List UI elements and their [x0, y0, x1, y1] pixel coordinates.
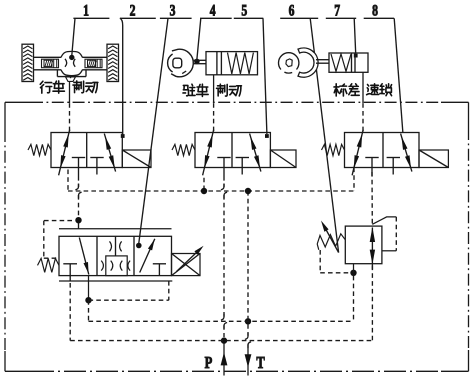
label 驻车制动 (parking brake) [183, 84, 241, 96]
wire main valve work port [88, 276, 90, 301]
parking brake drum [168, 49, 194, 77]
wheel brake chambers [42, 59, 103, 67]
wire main valve T drop [69, 283, 71, 341]
node relief drain junction [350, 270, 356, 276]
enclosure boundary left [4, 102, 6, 371]
svg-text:1: 1 [83, 3, 89, 20]
wire pilot bracket to spring side [44, 221, 75, 259]
node main valve outlet junction [85, 297, 91, 303]
wire V3 return drop [353, 168, 355, 192]
leader line 4 [194, 18, 201, 64]
leader line 1 [69, 18, 75, 60]
piston rod (parking) [194, 60, 206, 63]
svg-text:8: 8 [372, 3, 378, 20]
wire V3 to relief valve [371, 172, 373, 224]
wire V1 return drop [67, 170, 69, 192]
node T rail junction [245, 318, 251, 324]
axle housing with differential [34, 51, 108, 75]
wheel tires (service brake axle) [22, 44, 119, 81]
svg-text:2: 2 [130, 3, 136, 20]
port T arrow [245, 354, 252, 367]
solenoid valve V2 (parking brake 3/2 valve) [172, 130, 296, 176]
differential gear marks [65, 59, 75, 67]
node T top junction [245, 188, 251, 194]
callout numbers 1-8 [83, 3, 378, 20]
enclosure boundary bottom [5, 370, 469, 372]
wire relief spring drain [320, 250, 350, 273]
wire V1 pilot to main valve [78, 223, 80, 229]
label T [256, 354, 265, 372]
wire pressure line P [221, 176, 227, 376]
spring brake cylinder (parking) [206, 52, 258, 75]
label 桥差速锁 (diff lock) [334, 84, 392, 96]
wire relief outlet drop [371, 266, 373, 341]
leader line 5 [263, 18, 269, 138]
port P arrow [221, 352, 228, 365]
wire V2 return drop [203, 178, 205, 191]
wire parking-brake line [213, 75, 215, 133]
svg-text:5: 5 [241, 3, 247, 20]
wire V1 pilot drop [75, 176, 81, 217]
wire tank rail [68, 190, 354, 192]
svg-text:7: 7 [334, 3, 340, 20]
relief valve (pressure control) [317, 217, 396, 270]
leader line 3 [136, 18, 168, 248]
wire under-valve return [89, 281, 169, 300]
svg-text:4: 4 [210, 3, 216, 20]
adjustment arrow (leader 6 end) [321, 221, 339, 253]
main brake valve (pilot operated proportional valve) [38, 229, 204, 281]
svg-text:3: 3 [170, 3, 176, 20]
wire rail A [89, 300, 354, 321]
node V2 return junction [201, 188, 207, 194]
diff-lock cylinder [329, 53, 368, 72]
solenoid valve V1 (service brake 3/2 valve) [28, 130, 151, 176]
node V1 pilot junction [75, 217, 81, 223]
wire relief drain drop [353, 276, 355, 322]
wire tank line T [245, 191, 251, 376]
diff-lock gear wheel [278, 53, 298, 73]
shift fork [298, 48, 318, 77]
leader line 2 [120, 18, 125, 138]
piston rod (diff lock) [316, 60, 329, 64]
node P junction [221, 337, 227, 343]
leader line 6 [310, 18, 338, 252]
brake actuator bracket [57, 70, 86, 82]
svg-text:6: 6 [289, 3, 295, 20]
label P [205, 354, 213, 372]
leader line 7 [354, 18, 358, 57]
leader line 8 [394, 18, 403, 133]
wire diff-lock line [362, 72, 364, 132]
wire relief valve outlet stub [353, 264, 355, 273]
wire rail B [70, 340, 372, 342]
svg-text:P: P [205, 354, 213, 372]
label 行车制动 (service brake) [40, 81, 98, 93]
enclosure boundary right [468, 102, 470, 371]
svg-text:T: T [256, 354, 265, 372]
wire service-brake line [69, 81, 71, 132]
callout underlines [73, 17, 394, 19]
solenoid valve V3 (diff lock 3/2 valve) [322, 130, 449, 176]
enclosure boundary top [5, 101, 469, 103]
